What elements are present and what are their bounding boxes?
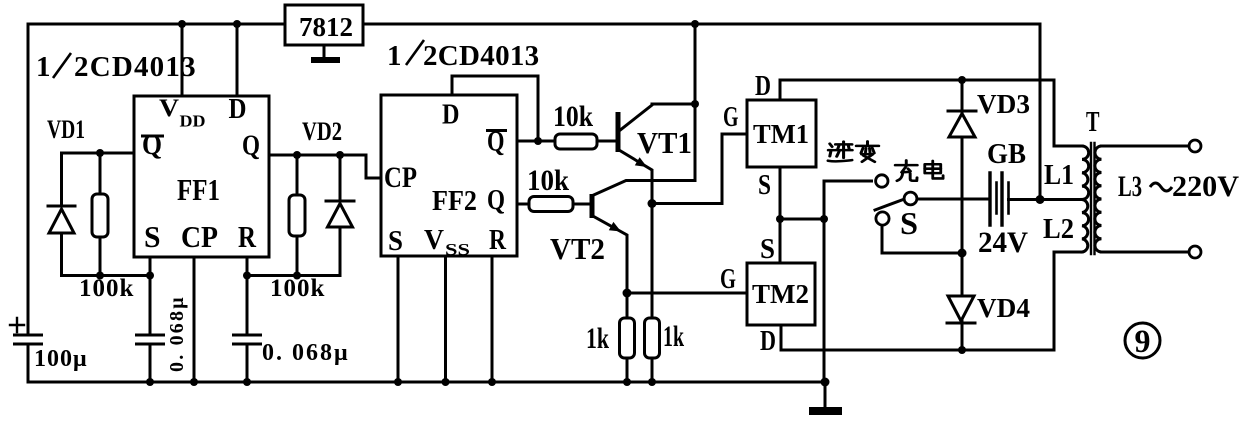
- svg-text:CP: CP: [384, 161, 417, 194]
- svg-text:SS: SS: [445, 240, 470, 259]
- svg-text:VT1: VT1: [637, 125, 692, 160]
- svg-text:T: T: [1086, 106, 1100, 138]
- svg-text:V: V: [159, 95, 179, 122]
- svg-text:L1: L1: [1044, 160, 1074, 191]
- svg-text:FF2: FF2: [432, 186, 477, 217]
- svg-text:G: G: [720, 264, 736, 295]
- svg-text:VD2: VD2: [302, 117, 342, 146]
- svg-text:VD1: VD1: [47, 115, 85, 144]
- svg-text:10k: 10k: [553, 100, 593, 133]
- svg-text:D: D: [442, 99, 460, 131]
- svg-text:7812: 7812: [299, 12, 353, 42]
- svg-text:TM2: TM2: [752, 279, 809, 309]
- svg-text:R: R: [489, 224, 507, 256]
- svg-text:L3: L3: [1118, 170, 1142, 203]
- svg-text:24V: 24V: [978, 226, 1028, 259]
- svg-text:Q: Q: [487, 184, 505, 216]
- svg-text:S: S: [144, 219, 161, 254]
- svg-text:L2: L2: [1043, 214, 1074, 245]
- svg-text:Q: Q: [142, 129, 162, 161]
- svg-text:0. 068μ: 0. 068μ: [166, 295, 188, 372]
- svg-text:D: D: [760, 326, 776, 357]
- svg-text:10k: 10k: [527, 164, 569, 197]
- svg-text:G: G: [723, 102, 739, 133]
- svg-text:V: V: [424, 225, 444, 256]
- svg-text:S: S: [758, 170, 771, 201]
- svg-text:100k: 100k: [270, 275, 325, 302]
- svg-text:VD3: VD3: [977, 89, 1030, 119]
- svg-text:R: R: [238, 219, 256, 254]
- svg-text:VD4: VD4: [977, 293, 1030, 323]
- svg-text:220V: 220V: [1172, 170, 1239, 203]
- svg-text:2CD4013: 2CD4013: [423, 40, 540, 72]
- svg-text:VT2: VT2: [550, 231, 605, 266]
- svg-text:TM1: TM1: [753, 119, 809, 149]
- svg-text:100k: 100k: [79, 275, 134, 302]
- svg-text:1k: 1k: [663, 320, 684, 353]
- svg-text:S: S: [900, 205, 918, 241]
- svg-text:S: S: [388, 225, 403, 257]
- svg-text:GB: GB: [987, 139, 1026, 170]
- svg-text:100μ: 100μ: [34, 346, 88, 372]
- svg-text:D: D: [755, 71, 771, 102]
- svg-text:S: S: [760, 234, 775, 265]
- svg-text:9: 9: [1135, 324, 1151, 360]
- svg-text:CP: CP: [181, 219, 218, 254]
- svg-text:2CD4013: 2CD4013: [74, 51, 197, 83]
- svg-text:1k: 1k: [586, 322, 609, 355]
- svg-text:FF1: FF1: [177, 172, 220, 207]
- svg-text:Q: Q: [242, 130, 260, 162]
- svg-text:0. 068μ: 0. 068μ: [262, 340, 350, 366]
- svg-text:1: 1: [36, 51, 51, 83]
- svg-text:1: 1: [387, 40, 402, 72]
- svg-text:D: D: [229, 94, 247, 125]
- svg-text:DD: DD: [180, 112, 206, 131]
